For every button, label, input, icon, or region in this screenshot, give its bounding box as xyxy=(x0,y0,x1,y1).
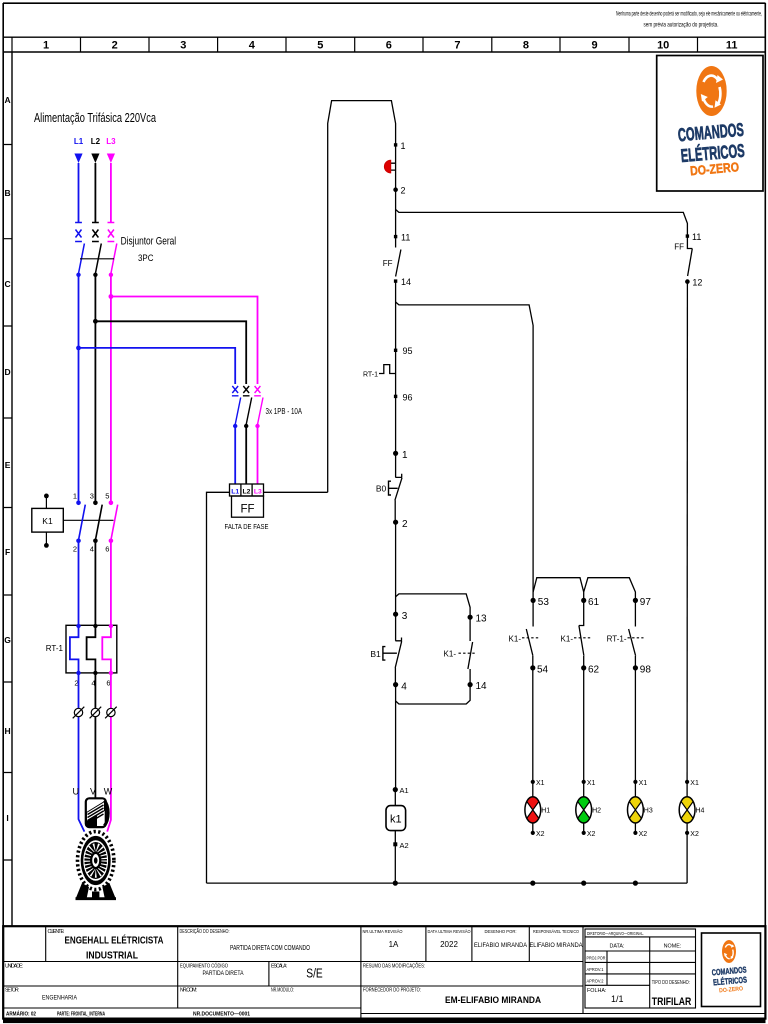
svg-text:U: U xyxy=(73,787,80,797)
label FALTA DE FASE xyxy=(225,522,269,531)
svg-text:H: H xyxy=(5,726,11,736)
svg-text:FF: FF xyxy=(674,243,684,252)
svg-text:54: 54 xyxy=(537,664,549,675)
svg-text:PROJ.POR: PROJ.POR xyxy=(587,956,606,962)
wire 12 to H4 xyxy=(686,282,688,782)
source arrow L1 xyxy=(74,154,82,164)
svg-text:A: A xyxy=(5,95,11,105)
svg-text:H1: H1 xyxy=(541,808,550,815)
svg-text:INDUSTRIAL: INDUSTRIAL xyxy=(86,950,138,962)
svg-text:FF: FF xyxy=(240,504,254,516)
svg-text:C: C xyxy=(5,279,11,289)
terminal label L3 xyxy=(254,488,262,495)
svg-text:D: D xyxy=(5,367,11,377)
contact RT-1 97-98 xyxy=(607,600,644,668)
terminal label 1 xyxy=(73,492,77,501)
logo wordmark xyxy=(677,119,748,180)
svg-text:11: 11 xyxy=(401,233,410,243)
svg-text:98: 98 xyxy=(640,664,652,675)
svg-text:Nenhuma parte deste desenho po: Nenhuma parte deste desenho poderá ser m… xyxy=(616,12,762,18)
svg-text:W: W xyxy=(104,787,113,797)
svg-text:2: 2 xyxy=(112,40,118,52)
wire FF right to control loop xyxy=(264,491,328,493)
relay FF body xyxy=(232,496,264,517)
wire L3 branch to fuse xyxy=(111,297,258,385)
terminal label 2 xyxy=(73,545,77,554)
button B0 NC xyxy=(376,453,402,522)
node 4 xyxy=(393,681,407,692)
wire U with gland xyxy=(79,673,85,832)
svg-text:12: 12 xyxy=(692,278,702,288)
svg-text:L1: L1 xyxy=(74,137,84,146)
svg-text:FF: FF xyxy=(383,259,393,268)
terminal label 4 RT1 xyxy=(91,679,95,688)
cell DATA ULTIMA REVISAO xyxy=(428,928,471,949)
svg-text:K1-: K1- xyxy=(561,634,574,643)
svg-text:B1: B1 xyxy=(370,649,381,659)
contact K1 pole 5-6 xyxy=(109,501,118,544)
svg-text:DATA ULTIMA REVISÃO: DATA ULTIMA REVISÃO xyxy=(428,928,471,934)
wire L3 top xyxy=(110,163,112,222)
contact FF 11-14 xyxy=(383,237,401,277)
cell FORNECEDOR xyxy=(363,988,541,1007)
wire L2 vertical to K1 xyxy=(94,275,96,503)
svg-text:3PC: 3PC xyxy=(138,253,154,264)
overload relay RT-1 box xyxy=(66,625,117,673)
phase label L2 xyxy=(91,137,101,146)
node L1 branch xyxy=(76,346,81,351)
svg-text:DATA:: DATA: xyxy=(609,944,624,950)
svg-text:RESPONSÁVEL TECNICO: RESPONSÁVEL TECNICO xyxy=(533,928,579,934)
CONTROL CIRCUIT xyxy=(207,101,703,886)
terminal label 6 xyxy=(105,545,109,554)
node 1 B0 xyxy=(393,450,408,461)
fuse F1 xyxy=(384,145,395,190)
label 3x 1PB - 10A xyxy=(266,407,303,416)
svg-text:X2: X2 xyxy=(690,831,699,838)
svg-text:14: 14 xyxy=(401,277,411,287)
relay FF terminal strip xyxy=(230,484,264,496)
POWER CIRCUIT xyxy=(32,110,328,900)
breaker 1PB pole L3 xyxy=(254,386,263,484)
svg-text:L1: L1 xyxy=(231,488,239,495)
cable gland U xyxy=(73,707,85,719)
wire rail to FF right xyxy=(396,210,688,237)
svg-text:9: 9 xyxy=(591,40,597,52)
node 14 xyxy=(394,277,411,287)
node rail H3 xyxy=(633,881,638,886)
svg-text:10: 10 xyxy=(657,40,669,52)
label 3PC xyxy=(138,253,154,264)
svg-text:1: 1 xyxy=(73,492,77,501)
terminal label 2 RT1 xyxy=(74,679,78,688)
terminal label W xyxy=(104,787,113,797)
svg-text:X1: X1 xyxy=(536,780,545,787)
wire L2 top xyxy=(94,163,96,222)
svg-text:L2: L2 xyxy=(91,137,101,146)
node 14 seal xyxy=(468,681,488,692)
svg-text:Alimentação Trifásica 220Vca: Alimentação Trifásica 220Vca xyxy=(34,110,156,125)
wire seal-in branch bottom xyxy=(396,685,471,704)
title Alimentação Trifásica 220Vca xyxy=(34,110,156,125)
svg-text:H2: H2 xyxy=(592,808,601,815)
svg-text:UNIDADE:: UNIDADE: xyxy=(5,964,23,970)
label RT-1 xyxy=(46,644,64,653)
svg-text:B: B xyxy=(5,188,11,198)
contact K1 pole 3-4 xyxy=(93,501,102,544)
svg-text:ARMÁRIO: 02: ARMÁRIO: 02 xyxy=(6,1010,36,1017)
svg-text:NR.MODULO:: NR.MODULO: xyxy=(271,988,294,994)
node rail H1 xyxy=(530,881,535,886)
heater element L1 xyxy=(70,624,81,675)
breaker mechanical link xyxy=(80,258,114,260)
source arrow L2 xyxy=(91,154,99,164)
svg-text:DESCRIÇÃO DO DESENHO:: DESCRIÇÃO DO DESENHO: xyxy=(180,928,230,935)
cell RESUMO xyxy=(363,963,425,970)
svg-text:G: G xyxy=(4,635,11,645)
svg-text:ENGEHALL ELÉTRICISTA: ENGEHALL ELÉTRICISTA xyxy=(65,934,164,947)
LOGOS xyxy=(657,56,763,1007)
title block grid lines xyxy=(3,926,765,1019)
diretorio labels xyxy=(587,931,692,1008)
source arrow L3 xyxy=(107,154,115,164)
wire L3 K1 to RT1 xyxy=(110,541,112,626)
contactor K1 coil box xyxy=(32,508,64,532)
label Disjuntor Geral xyxy=(121,236,177,248)
lamp H4 yellow xyxy=(679,780,704,883)
svg-text:NR.COM:: NR.COM: xyxy=(180,988,197,994)
svg-text:1: 1 xyxy=(43,40,49,52)
wire L2 K1 to RT1 xyxy=(94,541,96,626)
cell EQUIPAMENTO CODIGO xyxy=(180,963,244,978)
svg-text:TIPO DO DESENHO:: TIPO DO DESENHO: xyxy=(652,980,690,986)
terminal label V xyxy=(90,787,96,797)
breaker Disjuntor Geral pole L1 xyxy=(75,223,84,277)
svg-text:4: 4 xyxy=(249,40,256,52)
wire A2 to rail xyxy=(394,844,396,883)
wire 54 to H1 xyxy=(532,668,534,782)
svg-text:11: 11 xyxy=(692,232,701,242)
svg-text:62: 62 xyxy=(588,664,600,675)
cell DESCRICAO xyxy=(180,928,311,952)
svg-text:TRIFILAR: TRIFILAR xyxy=(652,996,692,1008)
svg-text:6: 6 xyxy=(386,40,392,52)
node L2 branch xyxy=(93,319,98,324)
wire 14 to 95 xyxy=(395,281,397,350)
lamp H2 green xyxy=(576,780,601,838)
disclaimer note xyxy=(616,12,762,29)
node 53 xyxy=(531,597,550,608)
wire L3 vertical to K1 xyxy=(110,275,112,503)
wire down through branch xyxy=(395,190,397,237)
svg-text:CLIENTE:: CLIENTE: xyxy=(48,929,65,935)
svg-text:ENGENHARIA: ENGENHARIA xyxy=(42,995,78,1002)
svg-text:APROV.1: APROV.1 xyxy=(587,967,604,973)
svg-text:FORNECEDOR DO PROJETO:: FORNECEDOR DO PROJETO: xyxy=(363,988,421,994)
terminal label L2 xyxy=(243,488,251,495)
logo box bottom right xyxy=(702,933,761,1007)
svg-text:4: 4 xyxy=(90,545,94,554)
black bottom bar xyxy=(3,1019,766,1023)
wire L1 K1 to RT1 xyxy=(78,541,80,626)
terminal label U xyxy=(73,787,80,797)
svg-text:1: 1 xyxy=(401,141,406,151)
svg-text:k1: k1 xyxy=(390,813,402,825)
cell NR ULTIMA REVISAO xyxy=(363,928,403,949)
svg-text:F: F xyxy=(5,547,10,557)
row letters A-I xyxy=(4,95,11,823)
svg-text:96: 96 xyxy=(403,392,413,402)
wire L1 branch to fuse xyxy=(79,348,236,384)
svg-text:6: 6 xyxy=(105,545,109,554)
cell ESCALA xyxy=(271,964,323,981)
cell NR.COM xyxy=(180,988,197,994)
svg-text:I: I xyxy=(6,813,8,823)
svg-text:L2: L2 xyxy=(243,488,251,495)
contact K1 53-54 xyxy=(509,600,539,668)
svg-text:DESENHO POR:: DESENHO POR: xyxy=(485,929,517,934)
node 62 xyxy=(581,664,599,675)
cable gland V xyxy=(90,707,102,719)
cell DESENHO POR xyxy=(474,929,528,949)
svg-text:RT-1: RT-1 xyxy=(363,371,378,378)
heater element L3 xyxy=(102,624,113,675)
node rail H2 xyxy=(581,881,586,886)
svg-text:K1-: K1- xyxy=(509,634,522,643)
svg-text:3: 3 xyxy=(90,492,94,501)
node 54 xyxy=(530,664,548,675)
svg-text:1: 1 xyxy=(402,450,408,461)
svg-text:4: 4 xyxy=(401,681,407,692)
svg-text:A2: A2 xyxy=(400,841,409,850)
cell NR.MODULO xyxy=(271,988,294,994)
svg-text:3: 3 xyxy=(402,611,408,622)
contact K1 pole 1-2 xyxy=(76,501,85,544)
node L3 branch xyxy=(109,294,114,299)
svg-text:97: 97 xyxy=(640,597,652,608)
svg-text:3x 1PB - 10A: 3x 1PB - 10A xyxy=(266,407,303,416)
svg-text:RESUMO DAS MODIFICAÇÕES:: RESUMO DAS MODIFICAÇÕES: xyxy=(363,963,425,970)
svg-text:K1-: K1- xyxy=(444,650,457,659)
node 13 xyxy=(468,614,488,625)
svg-text:L3: L3 xyxy=(254,488,262,495)
node 11 xyxy=(394,233,410,243)
node 61 xyxy=(581,597,599,608)
row ruler band xyxy=(3,52,12,926)
diretorio box xyxy=(585,929,696,1008)
contactor K1 link dots xyxy=(44,494,49,548)
svg-text:PARTIDA DIRETA: PARTIDA DIRETA xyxy=(203,970,245,977)
svg-text:K1: K1 xyxy=(42,516,53,526)
terminal label 5 xyxy=(105,492,109,501)
svg-text:13: 13 xyxy=(476,614,488,625)
svg-text:2022: 2022 xyxy=(440,940,458,949)
breaker 1PB pole L1 xyxy=(232,386,241,484)
node 98 xyxy=(633,664,652,675)
contact K1 61-62 xyxy=(561,600,591,668)
svg-text:8: 8 xyxy=(523,40,529,52)
svg-text:2: 2 xyxy=(402,519,408,530)
wire rail to lamp contacts xyxy=(396,302,533,600)
coil K1 xyxy=(386,790,406,845)
svg-text:X2: X2 xyxy=(536,831,545,838)
breaker Disjuntor Geral pole L2 xyxy=(92,223,101,277)
column numbers 1-11 xyxy=(43,40,738,52)
cable gland W xyxy=(105,707,117,719)
wire seal-in branch top xyxy=(396,594,471,617)
heater element L2 xyxy=(87,624,98,675)
svg-text:RT-1-: RT-1- xyxy=(607,634,627,643)
LAMPS xyxy=(525,780,705,883)
node 95 xyxy=(394,346,413,356)
svg-text:7: 7 xyxy=(454,40,460,52)
contactor K1 mechanical link line xyxy=(63,519,113,521)
node 2 B0 xyxy=(393,519,408,530)
svg-text:X1: X1 xyxy=(587,780,596,787)
bottom rail xyxy=(207,882,688,884)
svg-text:NOME:: NOME: xyxy=(664,944,682,950)
svg-text:ESCALA:: ESCALA: xyxy=(271,964,287,970)
breaker 1PB pole L2 xyxy=(243,386,252,484)
svg-text:H4: H4 xyxy=(696,808,705,815)
terminal label L1 xyxy=(231,488,239,495)
wire L1 top xyxy=(78,163,80,222)
phase label L3 xyxy=(106,137,116,146)
TITLEBLOCK xyxy=(3,926,766,1023)
cell SETOR xyxy=(5,988,78,1002)
wire 62 to H2 xyxy=(583,668,585,782)
svg-text:NR.ULTIMA REVISÃO: NR.ULTIMA REVISÃO xyxy=(363,928,403,934)
svg-text:A1: A1 xyxy=(400,786,409,795)
svg-text:53: 53 xyxy=(538,597,550,608)
svg-text:11: 11 xyxy=(726,40,738,52)
node 3 xyxy=(393,611,408,622)
lamp H1 red xyxy=(525,780,550,838)
column ruler band xyxy=(3,37,766,52)
wire 2 to 3 xyxy=(395,522,397,614)
logo box top right xyxy=(657,56,763,192)
svg-text:14: 14 xyxy=(476,681,488,692)
wire lamp bridges xyxy=(533,578,635,601)
svg-text:H3: H3 xyxy=(644,808,653,815)
svg-text:RT-1: RT-1 xyxy=(46,644,64,653)
svg-text:SETOR:: SETOR: xyxy=(5,988,19,994)
cell UNIDADE xyxy=(5,964,23,970)
svg-text:V: V xyxy=(90,787,96,797)
node rail A2 xyxy=(393,881,398,886)
wire supply loop from FF xyxy=(328,101,396,493)
svg-text:PARTIDA DIRETA COM COMANDO: PARTIDA DIRETA COM COMANDO xyxy=(230,945,310,952)
svg-text:5: 5 xyxy=(317,40,323,52)
node 96 xyxy=(394,392,413,402)
contact FF 11-12 right xyxy=(674,232,702,287)
svg-text:1A: 1A xyxy=(389,940,399,949)
wire FF left to bottom rail xyxy=(207,492,230,883)
svg-text:DIRETORIO—ARQUIVO—ORIGINAL.: DIRETORIO—ARQUIVO—ORIGINAL. xyxy=(587,931,644,937)
terminal label 6 RT1 xyxy=(106,679,110,688)
contact RT-1 95-96 xyxy=(363,350,396,396)
svg-text:2: 2 xyxy=(73,545,77,554)
svg-text:X1: X1 xyxy=(690,780,699,787)
wire 96 to 1 xyxy=(395,396,397,453)
svg-text:PARTE: FRONTAL_INTERNA: PARTE: FRONTAL_INTERNA xyxy=(57,1011,105,1017)
logo wordmark small xyxy=(711,964,748,994)
svg-text:2: 2 xyxy=(401,186,406,196)
node 2 xyxy=(393,186,405,196)
node A1 xyxy=(393,786,409,795)
wire L2 branch to fuse xyxy=(95,321,246,384)
cell ARMARIO row xyxy=(6,1010,250,1017)
svg-text:B0: B0 xyxy=(376,484,387,494)
terminal label 4 xyxy=(90,545,94,554)
logo emblem xyxy=(696,66,726,116)
logo emblem small xyxy=(722,940,736,963)
svg-text:APROV.2: APROV.2 xyxy=(587,978,604,984)
svg-text:sem prévia autorização do proj: sem prévia autorização do projetista. xyxy=(644,23,719,29)
cell RESPONSAVEL TECNICO xyxy=(530,928,584,949)
node 97 xyxy=(633,597,652,608)
wire V with gland xyxy=(94,673,96,799)
lamp H3 yellow xyxy=(628,780,653,838)
button B1 NO xyxy=(370,614,402,684)
breaker Disjuntor Geral pole L3 xyxy=(108,223,117,277)
svg-text:1/1: 1/1 xyxy=(611,994,624,1004)
svg-text:EQUIPAMENTO CÓDIGO: EQUIPAMENTO CÓDIGO xyxy=(180,963,228,970)
wire L1 vertical to K1 xyxy=(78,275,80,503)
phase label L1 xyxy=(74,137,84,146)
svg-text:X2: X2 xyxy=(639,831,648,838)
terminal label 3 xyxy=(90,492,94,501)
svg-text:S/E: S/E xyxy=(306,966,323,981)
svg-text:X1: X1 xyxy=(639,780,648,787)
svg-text:95: 95 xyxy=(403,346,413,356)
svg-text:6: 6 xyxy=(106,679,110,688)
svg-text:ELIFABIO MIRANDA: ELIFABIO MIRANDA xyxy=(530,942,584,949)
svg-text:NR.DOCUMENTO—0001: NR.DOCUMENTO—0001 xyxy=(193,1011,250,1017)
svg-text:L3: L3 xyxy=(106,137,116,146)
svg-text:E: E xyxy=(5,460,11,470)
svg-text:FOLHA:: FOLHA: xyxy=(587,988,606,994)
title block outer frame xyxy=(3,926,765,1018)
motor M1 xyxy=(76,798,117,900)
svg-text:61: 61 xyxy=(588,597,600,608)
node A2 xyxy=(393,841,408,850)
svg-text:X2: X2 xyxy=(587,831,596,838)
svg-text:ELIFABIO MIRANDA: ELIFABIO MIRANDA xyxy=(474,942,528,949)
svg-text:Disjuntor Geral: Disjuntor Geral xyxy=(121,236,177,248)
wire W with gland xyxy=(107,673,111,832)
cell CLIENTE xyxy=(48,929,164,962)
wire 98 to H3 xyxy=(634,668,636,782)
svg-text:3: 3 xyxy=(180,40,186,52)
svg-text:EM-ELIFABIO MIRANDA: EM-ELIFABIO MIRANDA xyxy=(445,995,541,1006)
wire 4 to A1 xyxy=(395,685,397,790)
svg-text:5: 5 xyxy=(105,492,109,501)
contact K1 13-14 seal-in xyxy=(444,617,477,684)
svg-text:FALTA DE FASE: FALTA DE FASE xyxy=(225,522,269,531)
node 1 xyxy=(394,141,406,151)
